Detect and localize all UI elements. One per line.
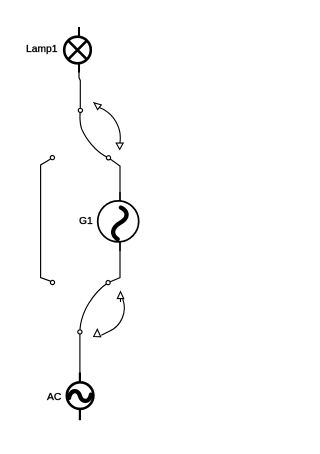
svg-text:AC: AC bbox=[47, 392, 62, 403]
svg-text:Lamp1: Lamp1 bbox=[26, 44, 58, 55]
svg-text:G1: G1 bbox=[79, 216, 93, 227]
